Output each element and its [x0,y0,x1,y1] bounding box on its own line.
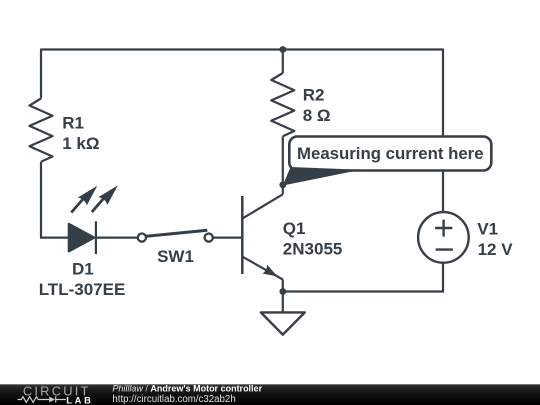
svg-text:Measuring current here: Measuring current here [297,144,484,163]
wire LED to switch [96,237,138,239]
wire top rail and right rail [41,50,443,213]
svg-text:R2: R2 [303,86,325,105]
ground [261,292,305,335]
svg-text:http://circuitlab.com/c32ab2h: http://circuitlab.com/c32ab2h [112,394,235,405]
node dot collector [279,181,286,188]
svg-text:SW1: SW1 [157,247,194,266]
svg-text:LTL-307EE: LTL-307EE [39,280,126,299]
wire switch to base [213,237,242,239]
wire collector to R2 [282,136,284,194]
svg-text:LAB: LAB [66,396,93,405]
wire left rail lower [41,162,69,238]
LED D1 [69,185,118,254]
wire bottom rail [283,263,443,292]
wire emitter down [282,280,284,292]
CircuitLab logo [18,383,94,405]
switch SW1 [138,230,213,242]
annotation callout box [283,137,492,186]
svg-text:1 kΩ: 1 kΩ [62,134,99,153]
resistor R2 [271,73,294,136]
svg-text:R1: R1 [62,114,84,133]
transistor Q1 [242,194,282,279]
svg-text:V1: V1 [477,220,498,239]
svg-text:Philllaw / Andrew's Motor cont: Philllaw / Andrew's Motor controller [112,383,262,393]
node dot top (R2/top rail) [279,46,286,53]
wire R2 to top rail [282,50,284,74]
svg-text:D1: D1 [72,259,94,278]
resistor R1 [30,99,53,162]
svg-text:Q1: Q1 [283,219,306,238]
svg-text:8 Ω: 8 Ω [303,106,331,125]
svg-text:2N3055: 2N3055 [283,240,343,259]
node dot emitter/bottom rail [279,288,286,295]
voltage source V1 [418,212,469,263]
svg-text:12 V: 12 V [478,240,514,259]
